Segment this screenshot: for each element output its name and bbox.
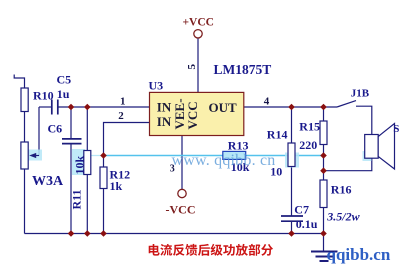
- svg-text:R13: R13: [228, 139, 249, 153]
- highlight patch R14: [285, 153, 299, 168]
- resistor R12 body: [100, 167, 107, 189]
- highlight patch wiper: [26, 150, 42, 161]
- resistor R15 body: [320, 121, 327, 145]
- svg-text:R16: R16: [331, 183, 352, 197]
- power port +VCC circle: [194, 30, 202, 38]
- junction output-R15-J1B node: [320, 104, 327, 111]
- resistor R14 body: [288, 143, 295, 167]
- capacitor C6 plates: [62, 139, 82, 144]
- wire U3 pin 2 to R12: [104, 123, 150, 234]
- capacitor C5 plates: [52, 100, 58, 115]
- svg-text:C6: C6: [48, 122, 63, 136]
- wire node A to C5 left plate: [39, 106, 51, 108]
- wire speaker return: [324, 158, 372, 171]
- highlight patch speaker corner: [363, 151, 372, 161]
- svg-text:-VCC: -VCC: [166, 203, 196, 217]
- wire R15 R16 chain: [323, 107, 325, 252]
- junction R12 ground: [100, 230, 107, 237]
- svg-text:4: 4: [264, 95, 270, 107]
- svg-text:OUT: OUT: [209, 100, 238, 115]
- switch J1B speaker box: [365, 135, 379, 159]
- svg-text:1k: 1k: [110, 179, 123, 193]
- svg-text:W3A: W3A: [32, 174, 64, 189]
- svg-text:5: 5: [186, 64, 198, 70]
- junction C5-C6 node: [68, 104, 75, 111]
- svg-text:R15: R15: [299, 120, 320, 134]
- svg-text:0.1u: 0.1u: [296, 217, 318, 231]
- svg-text:R10: R10: [33, 88, 54, 102]
- svg-text:U3: U3: [149, 79, 164, 93]
- wire C6 branch down: [70, 107, 72, 234]
- svg-text:C7: C7: [294, 203, 309, 217]
- svg-text:C5: C5: [57, 73, 72, 87]
- svg-text:VCC: VCC: [185, 101, 200, 129]
- wire C5 right plate to U3 pin 1: [58, 106, 149, 108]
- resistor R11 body: [84, 151, 91, 175]
- junction R16 ground rail end: [320, 230, 327, 237]
- potentiometer W3A body: [21, 142, 28, 169]
- wire R11 branch down: [86, 107, 88, 234]
- svg-text:R11: R11: [70, 189, 84, 209]
- resistor R16 body: [320, 180, 327, 208]
- wire R10 to W3A: [24, 112, 26, 143]
- power port -VCC circle: [178, 189, 186, 197]
- svg-text:1: 1: [120, 95, 126, 107]
- junction speaker-return-R16 node: [320, 167, 327, 174]
- svg-text:3.5/2w: 3.5/2w: [326, 210, 360, 224]
- wire U3 pin 5 from +VCC: [197, 38, 199, 92]
- svg-text:220: 220: [299, 138, 317, 152]
- svg-text:IN: IN: [157, 114, 172, 129]
- svg-text:+VCC: +VCC: [183, 17, 214, 29]
- switch J1B blade: [337, 101, 356, 107]
- wire W3A bottom to ground rail: [24, 169, 26, 234]
- svg-text:www. qqibb. cn: www. qqibb. cn: [172, 152, 276, 169]
- svg-text:J1B: J1B: [351, 88, 370, 100]
- wire W3A wiper to node A: [31, 107, 39, 156]
- junction output-R14 node: [288, 104, 295, 111]
- svg-text:2: 2: [118, 110, 124, 122]
- junction C7 ground: [288, 230, 295, 237]
- svg-text:1u: 1u: [57, 87, 70, 101]
- potentiometer W3A wiper arrow: [32, 155, 39, 157]
- wire U3 pin 4 output: [244, 106, 337, 108]
- junction R15-feedback node: [320, 152, 327, 159]
- svg-text:LM1875T: LM1875T: [214, 62, 272, 77]
- svg-text:IN: IN: [157, 100, 172, 115]
- caption red chinese text: [149, 244, 273, 256]
- op-amp U3 body: [150, 92, 244, 135]
- svg-text:10k: 10k: [73, 156, 87, 175]
- wire R14 branch down to C7: [291, 107, 293, 234]
- wire feedback (highlighted): [104, 155, 324, 157]
- wire ground rail: [25, 233, 324, 235]
- wire input hook top-left: [14, 75, 24, 89]
- ground symbol: [311, 252, 338, 262]
- resistor R13 body (highlighted): [223, 151, 246, 159]
- svg-text:S: S: [393, 123, 399, 135]
- resistor R10 body: [21, 88, 28, 112]
- wire watermark artifact stub: [85, 155, 104, 157]
- junction C6 ground: [68, 230, 75, 237]
- junction C5-R11 node: [84, 104, 91, 111]
- svg-text:qqibb.cn: qqibb.cn: [327, 245, 391, 264]
- highlight patch R11 value: [72, 149, 85, 175]
- speaker cone: [378, 124, 394, 170]
- switch J1B right terminal: [356, 106, 372, 134]
- junction pin2-R12-feedback node: [100, 152, 107, 159]
- svg-text:R14: R14: [267, 128, 288, 142]
- junction R11 ground: [84, 230, 91, 237]
- capacitor C7 plates: [281, 216, 303, 221]
- wire U3 pin 3 to -VCC: [181, 136, 183, 190]
